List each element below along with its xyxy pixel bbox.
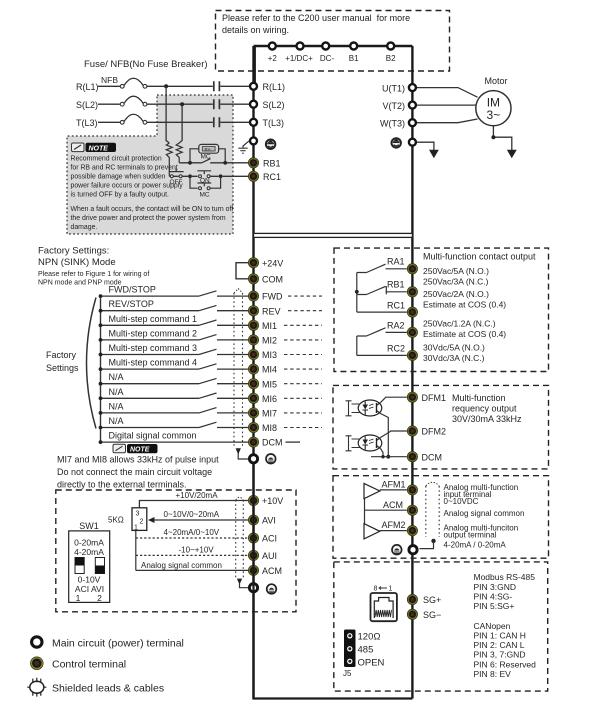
svg-text:N/A: N/A	[109, 401, 124, 411]
relay wire RC2	[357, 344, 407, 356]
protection circuit: taps and resistors	[166, 86, 182, 176]
comm text	[474, 572, 537, 679]
svg-text:V(T2): V(T2)	[383, 101, 406, 111]
svg-text:AFM1: AFM1	[382, 480, 406, 490]
terminal ACI	[248, 533, 277, 544]
svg-text:3~: 3~	[487, 108, 501, 122]
resistor (right)	[176, 143, 182, 163]
svg-text:0~10VDC: 0~10VDC	[444, 497, 479, 506]
svg-text:T(L3): T(L3)	[76, 118, 98, 128]
svg-text:damage.: damage.	[71, 224, 98, 231]
terminal MI8	[248, 422, 277, 433]
svg-text:Shielded leads & cables: Shielded leads & cables	[52, 683, 164, 695]
note text block 1	[71, 156, 234, 232]
terminal RC1	[248, 171, 281, 182]
op-amp AFM1	[364, 480, 406, 499]
svg-text:Multi-step command 3: Multi-step command 3	[109, 343, 198, 353]
svg-text:for RB and RC terminals to pre: for RB and RC terminals to prevent	[71, 165, 178, 172]
svg-text:ACI: ACI	[262, 534, 277, 544]
svg-text:NOTE: NOTE	[130, 447, 150, 454]
svg-text:CANopen: CANopen	[474, 621, 511, 631]
terminal MI1	[248, 320, 277, 331]
note icon 1	[72, 143, 117, 153]
svg-text:RB1: RB1	[387, 280, 405, 290]
svg-text:5KΩ: 5KΩ	[108, 516, 124, 525]
svg-text:MI5: MI5	[262, 379, 277, 389]
AFM text	[444, 483, 525, 550]
shield terminal (digital)	[249, 455, 257, 463]
DFM text	[452, 393, 522, 424]
svg-text:Do not connect the main circui: Do not connect the main circuit voltage	[57, 467, 212, 477]
svg-text:requency output: requency output	[452, 403, 517, 413]
digital shield bundle (dotted)	[234, 289, 248, 459]
svg-text:2: 2	[97, 593, 102, 603]
MI5 input wire and switch	[99, 372, 249, 385]
MI1 input wire and switch	[99, 314, 249, 327]
svg-text:485: 485	[358, 644, 374, 655]
svg-text:+10V/20mA: +10V/20mA	[176, 491, 219, 500]
svg-text:RB1: RB1	[263, 159, 281, 169]
terminal V(T2)	[383, 101, 416, 111]
terminal PE left	[238, 137, 257, 153]
terminal DFM2	[407, 426, 446, 437]
svg-text:2: 2	[140, 519, 144, 526]
svg-text:Please refer to the C200 user: Please refer to the C200 user manual for…	[222, 13, 410, 23]
svg-text:30V/30mA 33kHz: 30V/30mA 33kHz	[452, 414, 522, 424]
relay group1 common wire	[355, 273, 359, 313]
DCM common wire	[99, 431, 249, 444]
drive outline bottom	[254, 464, 413, 699]
AFM shield bundle (dotted)	[420, 482, 440, 548]
AUI wire (dashed)	[136, 546, 249, 556]
FWD/STOP input wire and switch	[99, 285, 249, 298]
svg-text:+24V: +24V	[262, 258, 283, 268]
terminal FWD	[248, 291, 283, 302]
svg-text:REV/STOP: REV/STOP	[109, 299, 154, 309]
terminal DC-	[320, 43, 335, 64]
OFF/ON/MC control branch	[169, 169, 249, 199]
svg-text:DCM: DCM	[422, 452, 443, 462]
analog shield bundle (dotted)	[236, 497, 248, 587]
digital input bus (left vertical)	[100, 296, 102, 442]
svg-text:MC: MC	[200, 192, 210, 199]
svg-text:MI4: MI4	[262, 365, 277, 375]
terminal AUI	[248, 550, 277, 561]
svg-text:N/A: N/A	[109, 416, 124, 426]
svg-text:N/A: N/A	[109, 387, 124, 397]
svg-text:MI6: MI6	[262, 394, 277, 404]
MI7 input wire and switch	[99, 401, 249, 414]
+10V wire	[139, 491, 249, 508]
svg-text:3: 3	[136, 511, 140, 518]
svg-text:-10~+10V: -10~+10V	[179, 546, 215, 555]
comm dashed box	[334, 562, 548, 691]
phase S(L2) row	[76, 96, 249, 110]
jumper J5	[343, 630, 385, 679]
svg-text:PIN 3, 7:GND: PIN 3, 7:GND	[474, 650, 526, 660]
svg-text:ACM: ACM	[262, 566, 282, 576]
svg-text:8: 8	[374, 586, 378, 593]
svg-text:Multi-function contact output: Multi-function contact output	[423, 252, 536, 262]
terminal B1	[349, 43, 359, 64]
RJ45 connector J1	[371, 586, 397, 622]
relay contact RA2	[357, 321, 407, 337]
svg-text:MI3: MI3	[262, 350, 277, 360]
svg-text:MC: MC	[201, 154, 211, 161]
terminal RB1 (output)	[407, 287, 417, 297]
ACM wire	[136, 561, 249, 570]
terminal RB1	[248, 158, 280, 169]
svg-text:Recommend circuit protection: Recommend circuit protection	[71, 156, 162, 163]
svg-text:PIN 5:SG+: PIN 5:SG+	[474, 601, 515, 611]
phase R(L1) row: label, wire, breaker	[76, 75, 249, 92]
svg-text:R(L1): R(L1)	[263, 82, 286, 92]
svg-text:0-10V: 0-10V	[78, 575, 101, 585]
svg-text:MI2: MI2	[262, 336, 277, 346]
DFM2 wire	[381, 431, 407, 438]
potentiometer 5K	[108, 508, 155, 532]
relay contact RA1	[357, 257, 407, 273]
svg-text:W(T3): W(T3)	[380, 119, 405, 129]
svg-text:PIN 8: EV: PIN 8: EV	[474, 669, 512, 679]
svg-text:Multi-function: Multi-function	[452, 393, 506, 403]
DFM dashed box	[333, 385, 549, 469]
terminal DCM	[248, 437, 282, 448]
RA resistor box	[199, 144, 219, 153]
svg-text:SG+: SG+	[423, 595, 441, 605]
terminal AVI	[248, 515, 276, 526]
svg-text:the drive power and protect th: the drive power and protect the power sy…	[71, 215, 226, 222]
right bus	[411, 46, 413, 699]
svg-text:PIN 1: CAN H: PIN 1: CAN H	[474, 631, 526, 641]
AFM dashed box	[333, 476, 549, 559]
terminal DCM (output)	[407, 452, 442, 463]
DCM wire stub right	[286, 441, 301, 443]
MI8 input wire and switch	[99, 416, 249, 429]
svg-text:DFM1: DFM1	[422, 393, 447, 403]
svg-text:Estimate at COS (0.4): Estimate at COS (0.4)	[423, 329, 506, 339]
svg-text:J5: J5	[343, 669, 352, 678]
terminal T(L3)	[250, 118, 284, 128]
svg-text:B1: B1	[349, 54, 359, 63]
optocoupler U1 (DFM1)	[346, 400, 382, 416]
DCM output wire	[371, 449, 407, 459]
shield terminal (AFM)	[409, 546, 417, 554]
terminal MI7	[248, 408, 277, 419]
PE screw icon left	[266, 140, 275, 149]
svg-text:RC1: RC1	[387, 301, 405, 311]
relay ratings text	[423, 252, 536, 364]
svg-text:RC1: RC1	[263, 172, 281, 182]
terminal B2	[386, 43, 396, 64]
svg-text:DCM: DCM	[262, 438, 283, 448]
terminal AFM2	[407, 525, 417, 535]
AFM2 wire	[380, 530, 407, 532]
shield terminal (analog)	[249, 584, 257, 592]
relay output dashed box	[334, 248, 549, 371]
motor wires	[417, 88, 478, 123]
AFM1 wire	[380, 489, 407, 491]
svg-text:When a fault occurs, the conta: When a fault occurs, the contact will be…	[71, 206, 234, 213]
REV/STOP input wire and switch	[99, 299, 249, 312]
MC aux contact (lower branch)	[190, 176, 221, 188]
RB1 wire with MC contact and RA parallel branch	[179, 144, 249, 164]
terminal AFM1	[407, 485, 417, 495]
legend shielded leads icon	[27, 678, 164, 697]
svg-text:S(L2): S(L2)	[76, 100, 98, 110]
svg-text:30Vdc/3A (N.C.): 30Vdc/3A (N.C.)	[423, 353, 485, 363]
terminal R(L1)	[250, 82, 285, 92]
PE right earth wire + arrow	[417, 142, 439, 158]
factory settings brace	[46, 298, 96, 429]
svg-text:MI7 and MI8 allows 33kHz of pu: MI7 and MI8 allows 33kHz of pulse input	[57, 455, 219, 465]
svg-text:Fuse/ NFB(No Fuse Breaker): Fuse/ NFB(No Fuse Breaker)	[84, 59, 208, 70]
ACI wire (dashed)	[136, 528, 249, 538]
svg-text:Factory: Factory	[46, 350, 77, 360]
SW1 dip switch block	[69, 521, 110, 603]
svg-text:Factory Settings:: Factory Settings:	[38, 246, 109, 257]
svg-text:Multi-step command 2: Multi-step command 2	[109, 328, 198, 338]
svg-text:250Vac/1.2A (N.C.): 250Vac/1.2A (N.C.)	[423, 319, 496, 329]
terminal ACM (output)	[407, 505, 417, 515]
svg-text:R(L1): R(L1)	[76, 82, 99, 92]
terminal MI6	[248, 393, 277, 404]
terminal +24V	[248, 258, 283, 269]
note gray box (RB/RC protection note)	[67, 95, 233, 234]
MI4 input wire and switch	[99, 358, 249, 371]
phase T(L3) row	[76, 114, 249, 128]
svg-text:FWD: FWD	[262, 292, 283, 302]
note icon 2	[113, 444, 158, 454]
svg-text:250Vac/3A (N.C.): 250Vac/3A (N.C.)	[423, 277, 489, 287]
DFM1 wire	[381, 397, 407, 402]
svg-text:DC-: DC-	[320, 54, 335, 63]
svg-text:120Ω: 120Ω	[358, 631, 381, 642]
left bus	[252, 46, 254, 699]
terminal +2	[268, 43, 278, 64]
svg-text:4-20mA / 0-20mA: 4-20mA / 0-20mA	[444, 541, 507, 550]
terminal U(T1)	[382, 84, 416, 94]
svg-text:NOTE: NOTE	[89, 145, 109, 152]
svg-text:S(L2): S(L2)	[263, 100, 285, 110]
svg-text:MI8: MI8	[262, 423, 277, 433]
terminal COM	[248, 274, 283, 285]
terminal PE right	[409, 139, 416, 146]
terminal S(L2)	[250, 100, 285, 110]
svg-text:30Vdc/5A (N.O.): 30Vdc/5A (N.O.)	[423, 343, 485, 353]
svg-text:4-20mA: 4-20mA	[74, 547, 104, 557]
svg-text:+2: +2	[268, 54, 278, 63]
svg-text:output terminal: output terminal	[444, 530, 497, 539]
ON pushbutton (upper branch)	[199, 175, 202, 178]
svg-text:0-20mA: 0-20mA	[74, 538, 104, 548]
svg-text:Main circuit (power) terminal: Main circuit (power) terminal	[52, 638, 184, 650]
PE screw icon right	[392, 138, 401, 147]
svg-text:AVI: AVI	[262, 516, 276, 526]
+24V to COM jumper wire	[236, 263, 250, 279]
svg-text:DFM2: DFM2	[422, 427, 447, 437]
relay group2 common wire	[356, 336, 358, 355]
svg-text:AFM2: AFM2	[382, 520, 406, 530]
svg-text:ACM: ACM	[383, 500, 403, 510]
svg-text:PIN 3:GND: PIN 3:GND	[474, 582, 517, 592]
terminal DFM1	[407, 392, 446, 403]
terminal ACM	[248, 565, 282, 576]
terminal SG+	[407, 594, 441, 605]
top info dashed box	[216, 11, 450, 72]
relay contact RB1	[357, 280, 407, 295]
svg-text:PIN 4:SG-: PIN 4:SG-	[474, 591, 513, 601]
svg-text:SG−: SG−	[423, 610, 441, 620]
shield ground icon (analog)	[267, 584, 277, 594]
svg-text:RA1: RA1	[387, 257, 405, 267]
svg-text:Analog signal common: Analog signal common	[444, 509, 525, 518]
terminal RC2	[407, 350, 417, 360]
terminal MI2	[248, 335, 277, 346]
opto1 to DCM vertical	[381, 414, 391, 459]
svg-text:Modbus RS-485: Modbus RS-485	[474, 572, 536, 582]
svg-text:4~20mA/0~10V: 4~20mA/0~10V	[164, 528, 220, 537]
terminal MI3	[248, 349, 277, 360]
MI3 input wire and switch	[99, 343, 249, 356]
optocoupler U2 (DFM2)	[346, 435, 382, 451]
svg-text:power failure occurs or power: power failure occurs or power supply	[71, 183, 184, 190]
svg-text:NPN (SINK) Mode: NPN (SINK) Mode	[38, 257, 116, 268]
svg-text:T(L3): T(L3)	[263, 118, 285, 128]
svg-text:N/A: N/A	[109, 372, 124, 382]
svg-text:1: 1	[389, 586, 393, 593]
svg-text:NFB: NFB	[101, 75, 118, 85]
svg-text:MI1: MI1	[262, 321, 277, 331]
svg-text:U(T1): U(T1)	[382, 84, 405, 94]
svg-text:+10V: +10V	[262, 496, 283, 506]
svg-text:250Vac/2A (N.O.): 250Vac/2A (N.O.)	[423, 289, 489, 299]
svg-text:possible damage when sudden: possible damage when sudden	[71, 174, 166, 181]
op-amp AFM2	[364, 520, 406, 539]
svg-text:PIN 2: CAN L: PIN 2: CAN L	[474, 640, 525, 650]
svg-text:RA2: RA2	[387, 321, 405, 331]
svg-text:+1/DC+: +1/DC+	[285, 54, 313, 63]
svg-text:Analog signal common: Analog signal common	[141, 561, 222, 570]
divider between power and control boards	[254, 233, 413, 237]
svg-text:PIN 6: Reserved: PIN 6: Reserved	[474, 659, 537, 669]
shield ground icon (digital)	[266, 454, 276, 464]
terminal +10V	[248, 495, 283, 506]
MI2 input wire and switch	[99, 328, 249, 341]
svg-text:MI7: MI7	[262, 409, 277, 419]
analog input dashed box	[56, 490, 296, 612]
ACM wire (analog out common)	[365, 499, 407, 524]
svg-text:Digital signal common: Digital signal common	[109, 431, 197, 441]
dashed option trails FWD..MI8	[284, 296, 322, 427]
note text block 2	[57, 455, 219, 490]
svg-text:250Vac/5A (N.O.): 250Vac/5A (N.O.)	[423, 266, 489, 276]
svg-text:REV: REV	[262, 306, 281, 316]
svg-text:SW1: SW1	[79, 521, 99, 531]
svg-text:Motor: Motor	[484, 76, 507, 86]
terminal +1/DC+	[285, 43, 313, 64]
terminal MI4	[248, 364, 277, 375]
svg-text:Multi-step command 4: Multi-step command 4	[109, 358, 198, 368]
svg-text:Estimate at COS (0.4): Estimate at COS (0.4)	[423, 300, 506, 310]
AVI wire	[154, 510, 250, 520]
legend control terminal	[30, 657, 126, 671]
terminal RA1	[407, 264, 417, 274]
svg-text:AUI: AUI	[262, 551, 277, 561]
svg-text:directly to the external termi: directly to the external terminals.	[57, 480, 187, 490]
terminal REV	[248, 306, 280, 317]
relay wire RC1	[357, 301, 407, 313]
motor M1	[476, 76, 511, 126]
label Fuse/NFB	[84, 59, 208, 70]
svg-text:RA: RA	[205, 147, 211, 152]
svg-text:COM: COM	[262, 274, 283, 284]
MI6 input wire and switch	[99, 387, 249, 400]
svg-text:Settings: Settings	[46, 363, 79, 373]
terminal RA2	[407, 327, 417, 337]
svg-text:is turned OFF by a faulty outp: is turned OFF by a faulty output.	[71, 192, 170, 199]
terminal RC1 (output)	[407, 307, 417, 317]
svg-text:FWD/STOP: FWD/STOP	[109, 285, 156, 295]
terminal SG-	[407, 609, 441, 620]
terminal MI5	[248, 379, 277, 390]
legend main circuit terminal	[32, 637, 184, 650]
factory settings header	[38, 246, 149, 287]
resistor (left)	[166, 143, 172, 176]
svg-text:B2: B2	[386, 54, 396, 63]
terminal W(T3)	[380, 119, 416, 129]
svg-text:RC2: RC2	[387, 344, 405, 354]
svg-text:Multi-step command 1: Multi-step command 1	[109, 314, 198, 324]
DC bus wire	[255, 46, 413, 86]
pot common vertical	[135, 530, 137, 570]
svg-text:Control terminal: Control terminal	[52, 659, 126, 671]
svg-text:1: 1	[76, 593, 81, 603]
svg-text:0~10V/0~20mA: 0~10V/0~20mA	[164, 510, 220, 519]
svg-text:details on wiring.: details on wiring.	[222, 25, 289, 35]
svg-text:Please refer to Figure 1 for w: Please refer to Figure 1 for wiring of	[38, 271, 149, 278]
svg-text:OPEN: OPEN	[358, 657, 385, 668]
motor ground wire	[491, 126, 516, 159]
shield ground icon (AFM)	[392, 545, 402, 555]
